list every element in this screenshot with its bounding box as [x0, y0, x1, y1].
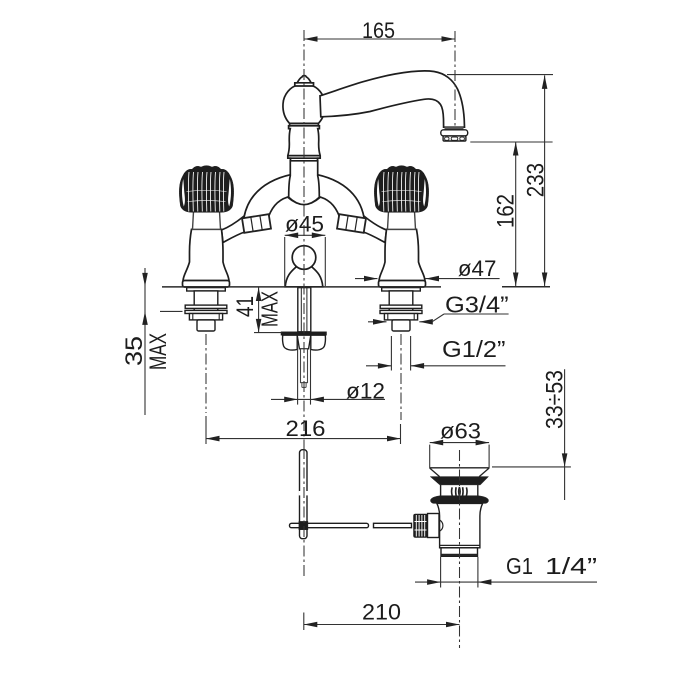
- svg-text:G3/4”: G3/4”: [445, 292, 509, 318]
- svg-text:MAX: MAX: [145, 333, 172, 370]
- svg-text:165: 165: [362, 18, 395, 43]
- svg-text:1/4”: 1/4”: [545, 553, 597, 579]
- svg-text:ø12: ø12: [346, 379, 385, 404]
- svg-text:162: 162: [493, 194, 520, 228]
- svg-text:233: 233: [523, 163, 550, 197]
- svg-text:33÷53: 33÷53: [542, 370, 569, 429]
- svg-text:210: 210: [362, 600, 401, 625]
- svg-text:ø45: ø45: [285, 212, 324, 237]
- svg-text:ø47: ø47: [458, 256, 497, 281]
- svg-text:216: 216: [286, 416, 326, 441]
- svg-text:G1: G1: [506, 553, 533, 579]
- svg-text:35: 35: [121, 336, 148, 366]
- svg-text:G1/2”: G1/2”: [442, 336, 506, 362]
- svg-text:41: 41: [232, 296, 259, 317]
- svg-text:ø63: ø63: [440, 419, 481, 444]
- svg-text:MAX: MAX: [257, 291, 283, 327]
